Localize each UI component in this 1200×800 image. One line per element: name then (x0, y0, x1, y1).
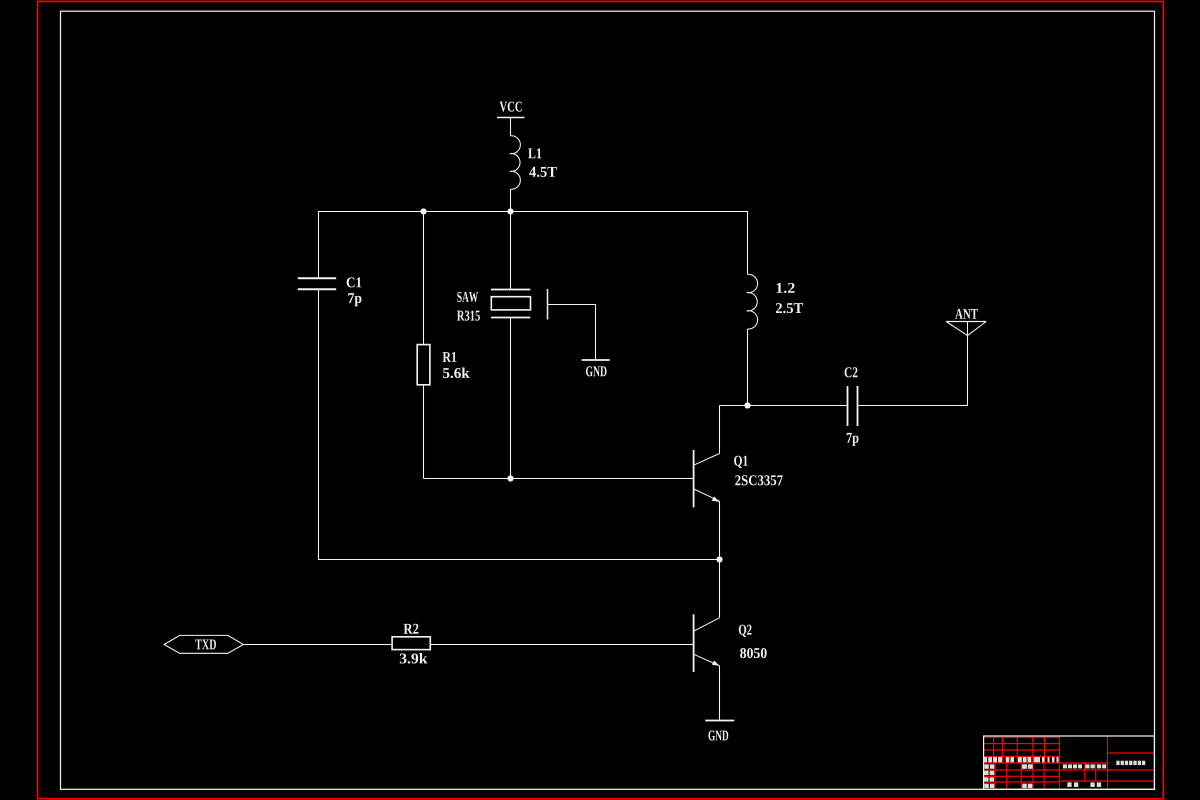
port TXD flag (164, 635, 243, 653)
junction node at R1/top rail (420, 208, 426, 214)
SAW resonator R315 body (491, 297, 530, 310)
title block drawing title text (1116, 761, 1119, 765)
resistor R1 (417, 345, 430, 385)
capacitor C2 plates (847, 386, 849, 426)
label VCC (500, 102, 522, 112)
wire Q2 collector from feedback rail (719, 560, 721, 618)
label TXD (195, 639, 216, 649)
title block red horizontal lines left section (984, 737, 1060, 782)
SAW resonator R315 plates (491, 289, 530, 291)
transistor Q1 base bar (693, 450, 695, 507)
resistor R2 (392, 637, 430, 650)
transistor Q2 emitter diagonal (694, 654, 720, 666)
wire Q1 collector up (719, 406, 721, 454)
transistor Q1 emitter diagonal (694, 489, 720, 501)
label SAW (457, 292, 478, 302)
wire top rail (319, 212, 748, 279)
inductor L1 (510, 136, 521, 189)
title block audit row text (984, 777, 989, 781)
label 2SC3357 (735, 475, 783, 485)
value 7p of C2 (847, 433, 859, 446)
title block (983, 736, 1154, 789)
wire SAW case to ground (548, 305, 596, 360)
label Q2 (739, 625, 752, 637)
junction node Q1 emitter/feedback rail (716, 556, 722, 562)
SAW case electrode (547, 289, 549, 320)
wire L2 to output rail (747, 329, 749, 406)
title block header row text (983, 757, 987, 762)
capacitor C1 plates (298, 277, 336, 279)
wire L1 to top rail (510, 189, 512, 211)
transistor Q2 base bar (693, 614, 695, 672)
label L1 (528, 148, 541, 158)
junction node at L1/top rail (507, 208, 513, 214)
title block middle header labels (1063, 764, 1067, 768)
junction node L2/output rail (744, 402, 750, 408)
title block red vertical lines upper-left section (994, 737, 1045, 763)
wire Q2 base rail (430, 644, 693, 646)
ground bar near SAW (582, 359, 610, 361)
power symbol VCC bar (497, 117, 525, 119)
label C2 (845, 367, 858, 377)
inductor L2 (747, 274, 758, 329)
transistor Q2 emitter arrowhead (712, 661, 720, 666)
value 3.9k (400, 653, 428, 664)
title block middle section lines (1059, 763, 1107, 781)
title block red vertical lines lower-left section (995, 763, 1044, 788)
title block draughting row text (984, 771, 989, 775)
wire base rail (424, 478, 694, 480)
value 5.6k (443, 367, 470, 378)
title block main red verticals (1059, 736, 1107, 788)
wire SAW branch top (510, 212, 512, 290)
label GND near SAW (586, 366, 607, 376)
transistor Q1 emitter arrowhead (712, 497, 720, 502)
title block right section lines (1108, 753, 1155, 781)
label R315 (457, 311, 480, 321)
title block craft row text (984, 784, 989, 789)
antenna ANT symbol (946, 321, 986, 323)
value 2.5T (776, 303, 803, 313)
wire VCC to L1 (510, 118, 512, 136)
value 4.5T (529, 167, 557, 177)
label R1 (443, 352, 457, 362)
label GND under Q2 (708, 730, 728, 740)
label ANT (955, 309, 978, 319)
label C1 (347, 277, 362, 287)
title block white border (984, 736, 1155, 789)
transistor Q1 collector diagonal (694, 454, 720, 466)
value 7p of C1 (348, 293, 361, 306)
label Q1 (734, 456, 747, 468)
title block sheet numbering (1067, 782, 1071, 787)
junction node at SAW/base rail (507, 475, 513, 481)
wire C2 to antenna (858, 322, 968, 406)
title block design row text (984, 764, 989, 769)
wire SAW bottom to base rail (510, 318, 512, 479)
wire C1 bottom to feedback rail (319, 289, 720, 559)
value 8050 (740, 648, 767, 658)
wire R1 branch top (423, 212, 425, 345)
wire Q2 emitter to ground (719, 666, 721, 721)
wire TXD to R2 (243, 644, 392, 646)
ground bar under Q2 (705, 720, 734, 722)
wire R1 to base rail (423, 385, 425, 479)
label R2 (404, 624, 419, 634)
transistor Q2 collector diagonal (694, 618, 719, 631)
value 1.2 (777, 283, 795, 293)
wire Q1 emitter down (719, 501, 721, 559)
wire output rail (720, 405, 848, 407)
